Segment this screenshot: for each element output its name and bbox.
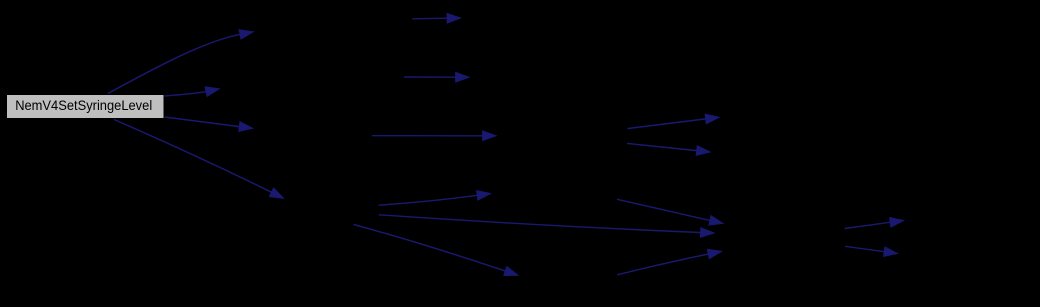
wire edge I n4->n10 — [379, 215, 714, 238]
wire edge G n3->n7 — [372, 131, 496, 141]
wire edge F n2->n6 — [404, 72, 469, 82]
wire edge M n8->n10 — [617, 199, 723, 225]
wire edge H n4->n8 — [379, 191, 491, 206]
wire edge N n9->n10 — [617, 249, 721, 274]
wire edge E n1->n5 — [412, 13, 460, 23]
wire edge O n10->n13 — [845, 218, 904, 229]
wire edge J n4->n9 — [354, 225, 519, 276]
svg-text:NemV4SetSyringeLevel: NemV4SetSyringeLevel — [15, 97, 152, 113]
wire edge L n7->n12 — [627, 143, 710, 155]
node NemV4SetSyringeLevel (root) — [7, 95, 165, 119]
wire edge C root->n3 — [165, 117, 253, 131]
wire edge P n10->n14 — [845, 246, 897, 256]
wire edge D root->n4 (curved) — [114, 120, 284, 199]
wire edge A root->n1 (curved) — [108, 30, 253, 94]
wire edge B root->n2 — [165, 87, 220, 96]
wire edge K n7->n11 — [627, 114, 719, 128]
